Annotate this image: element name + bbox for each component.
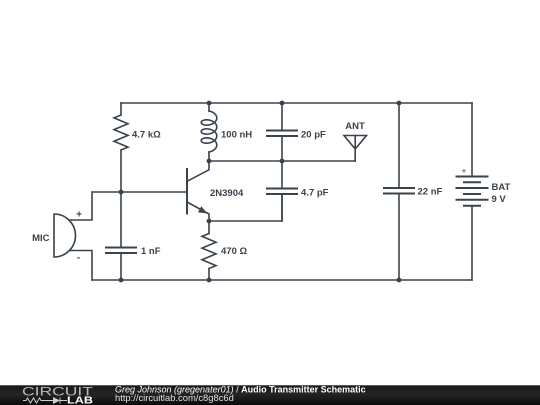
logo squiggle resistor and diode: [23, 398, 67, 404]
capacitor C3 1nF: [106, 192, 136, 280]
svg-text:22 nF: 22 nF: [418, 187, 443, 198]
node top-C1: [280, 101, 285, 106]
svg-text:MIC: MIC: [32, 233, 50, 244]
capacitor C4 22nF: [384, 103, 414, 280]
inductor L1 100nH: [201, 103, 217, 161]
wire base rail: [70, 192, 187, 220]
wire battery top lead: [471, 103, 473, 177]
node bottom-C3: [119, 278, 124, 283]
node top-inductor: [207, 101, 212, 106]
wire battery bottom lead: [471, 206, 473, 280]
svg-text:-: -: [77, 253, 80, 264]
svg-text:ANT: ANT: [345, 121, 365, 132]
node base: [119, 190, 124, 195]
svg-text:470 Ω: 470 Ω: [221, 246, 247, 257]
svg-text:http://circuitlab.com/c8g8c6d: http://circuitlab.com/c8g8c6d: [115, 392, 234, 403]
svg-text:+: +: [462, 165, 467, 175]
wire mic minus lead: [70, 251, 92, 281]
resistor R1 4.7k: [114, 103, 128, 192]
node bottom-C4: [397, 278, 402, 283]
svg-text:100 nH: 100 nH: [221, 130, 252, 141]
svg-text:BAT: BAT: [492, 182, 511, 193]
node bottom-R3: [207, 278, 212, 283]
svg-text:2N3904: 2N3904: [210, 188, 244, 199]
node top-C4: [397, 101, 402, 106]
resistor R3 470: [202, 221, 216, 280]
microphone MIC: [54, 214, 76, 257]
wire top rail: [121, 102, 472, 104]
svg-text:LAB: LAB: [67, 396, 93, 405]
svg-text:9 V: 9 V: [492, 194, 507, 205]
svg-text:+: +: [76, 209, 82, 220]
node inductor-collector: [207, 159, 212, 164]
svg-text:4.7 kΩ: 4.7 kΩ: [132, 130, 161, 141]
svg-text:20 pF: 20 pF: [301, 130, 326, 141]
transistor Q1 2N3904: [187, 162, 209, 222]
node emitter: [207, 219, 212, 224]
svg-text:4.7 pF: 4.7 pF: [301, 188, 329, 199]
wire emitter rail: [209, 194, 282, 221]
antenna ANT: [344, 136, 367, 162]
wire collector rail: [209, 160, 355, 162]
svg-text:1 nF: 1 nF: [141, 246, 161, 257]
capacitor C1 20pF: [267, 103, 297, 161]
battery V1 9V: [457, 177, 488, 206]
node C1-C2: [280, 159, 285, 164]
wire bottom rail: [92, 279, 472, 281]
capacitor C2 4.7pF: [267, 161, 297, 221]
